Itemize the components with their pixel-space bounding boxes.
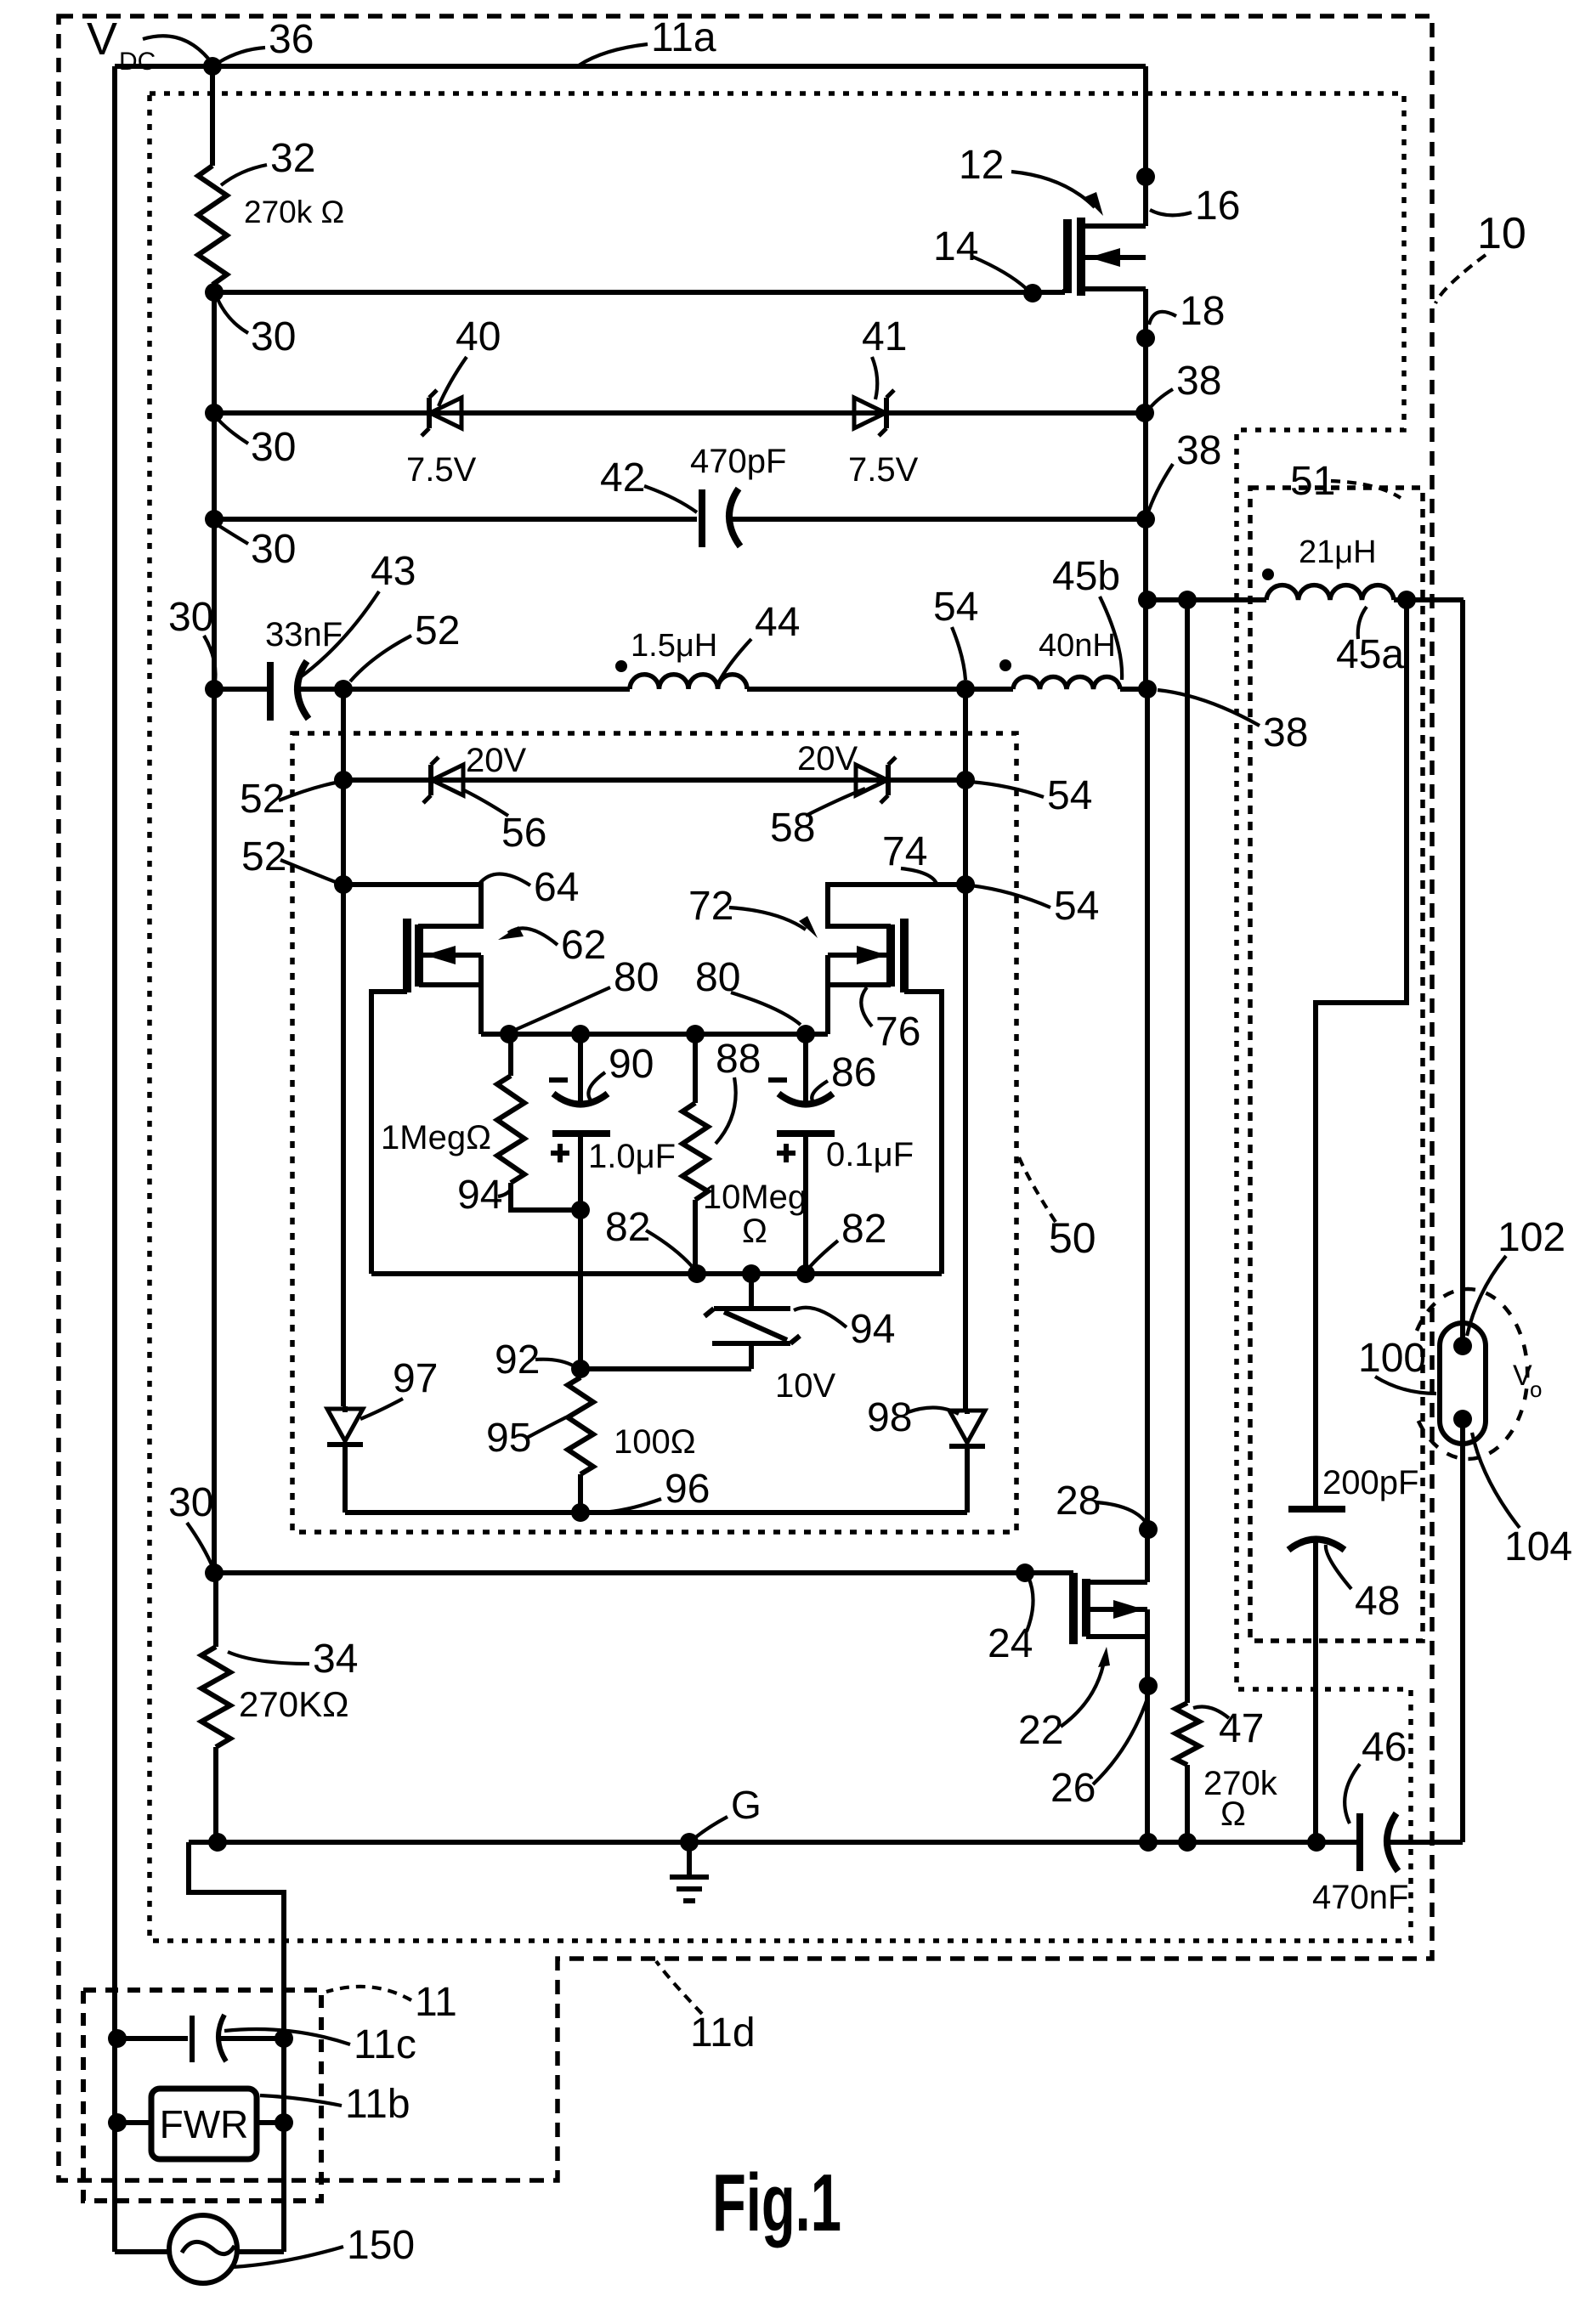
capacitor 42 470pF: [699, 489, 705, 547]
resistor 94 1MegOhm: [508, 1034, 513, 1076]
node 52 a: [334, 771, 353, 789]
svg-text:51: 51: [1290, 459, 1335, 504]
wire rail1 gate of Q12: [214, 289, 1065, 293]
svg-text:52: 52: [415, 608, 460, 653]
zener diode 40 7.5V: [430, 398, 461, 428]
node mid 94/90: [571, 1201, 590, 1219]
svg-text:7.5V: 7.5V: [406, 451, 477, 489]
wire Q62 gate lead: [371, 992, 407, 1274]
svg-text:Ω: Ω: [1220, 1795, 1246, 1833]
wire half-bridge mid vertical: [1145, 689, 1150, 1582]
node 92: [571, 1360, 590, 1378]
svg-text:14: 14: [933, 224, 978, 269]
wire top rail 11a: [115, 64, 1146, 69]
lamp terminal 102: [1453, 1337, 1472, 1355]
wire rail 52-54 zener row: [343, 777, 965, 783]
svg-text:54: 54: [933, 585, 978, 630]
svg-text:47: 47: [1219, 1706, 1264, 1751]
svg-text:11: 11: [415, 1980, 457, 2025]
node rail21 a: [1138, 591, 1157, 609]
svg-text:10V: 10V: [775, 1367, 835, 1405]
node 24 gate: [1016, 1563, 1034, 1582]
node 30 b: [205, 404, 224, 422]
wire ground rail G: [189, 1840, 1360, 1845]
lamp dashed circle V0: [1417, 1289, 1527, 1459]
svg-text:1.0μF: 1.0μF: [588, 1138, 676, 1175]
svg-text:33nF: 33nF: [265, 616, 343, 653]
svg-text:97: 97: [393, 1356, 438, 1401]
svg-text:72: 72: [688, 884, 733, 929]
node 11c left: [108, 2029, 127, 2048]
lamp terminal 104: [1453, 1410, 1472, 1428]
node 38 rail3: [1136, 510, 1155, 529]
svg-text:98: 98: [867, 1395, 912, 1440]
node 54 b: [956, 875, 975, 894]
svg-text:FWR: FWR: [160, 2102, 249, 2146]
svg-text:270KΩ: 270KΩ: [239, 1684, 349, 1724]
node 28: [1139, 1520, 1158, 1539]
minus sign 86: [768, 1077, 787, 1083]
svg-text:40nH: 40nH: [1039, 628, 1116, 664]
svg-text:11a: 11a: [651, 15, 716, 60]
node 82 b: [742, 1264, 761, 1283]
ground symbol: [687, 1842, 692, 1877]
svg-text:56: 56: [501, 811, 546, 856]
node 52 b: [334, 875, 353, 894]
transistor Q12 p-channel MOSFET: [1143, 66, 1148, 226]
node 11c right: [275, 2029, 293, 2048]
svg-text:21μH: 21μH: [1299, 534, 1377, 570]
wire resistor47 feed: [1185, 600, 1190, 1703]
node 54 rail4: [956, 680, 975, 698]
wire Q72 gate lead: [904, 992, 942, 1274]
svg-text:11b: 11b: [345, 2082, 410, 2127]
FWR full wave rectifier 11b: [151, 2089, 257, 2159]
capacitor 11c: [115, 2036, 188, 2041]
lamp 100 envelope: [1440, 1323, 1486, 1444]
node R47 ground: [1178, 1833, 1197, 1852]
svg-text:30: 30: [251, 425, 296, 470]
wire rail 82: [371, 1271, 942, 1276]
svg-text:30: 30: [168, 595, 213, 640]
minus sign 90: [549, 1077, 568, 1083]
node 18: [1136, 329, 1155, 348]
capacitor 90 1.0uF: [578, 1034, 583, 1104]
svg-text:88: 88: [716, 1037, 761, 1082]
transistor Q22 MOSFET: [1069, 1573, 1078, 1644]
inner dashed boundary box 11a region: [150, 93, 1411, 1941]
node rail21 b: [1178, 591, 1197, 609]
node 80 c: [686, 1025, 705, 1043]
svg-text:48: 48: [1355, 1579, 1400, 1624]
wire right column 54: [963, 689, 968, 1412]
svg-text:42: 42: [600, 455, 645, 500]
svg-text:44: 44: [755, 600, 800, 645]
node 38 rail4: [1138, 680, 1157, 698]
svg-text:10Meg: 10Meg: [703, 1179, 807, 1216]
wire rail2 zener row: [214, 410, 1146, 416]
node 30 d: [205, 680, 224, 698]
node 80 a: [500, 1025, 518, 1043]
wire gate rail Q22: [214, 1570, 1073, 1575]
node 26: [1139, 1677, 1158, 1695]
svg-text:20V: 20V: [797, 740, 858, 777]
svg-text:26: 26: [1050, 1766, 1096, 1811]
wire bottom rail 96: [345, 1510, 967, 1515]
capacitor 46 470nF: [1356, 1813, 1363, 1871]
node 34 bottom: [208, 1833, 227, 1852]
svg-text:V: V: [87, 14, 117, 65]
transistor Q72 MOSFET: [828, 885, 965, 926]
node 14 gate: [1023, 284, 1042, 303]
zener diode 94 10V: [749, 1274, 754, 1309]
svg-text:94: 94: [850, 1307, 895, 1352]
node 54 a: [956, 771, 975, 789]
node 82 c: [796, 1264, 815, 1283]
plus sign 90: [551, 1144, 569, 1162]
wire rail 80: [481, 1032, 828, 1037]
dashed box 51 output circuit: [1250, 488, 1423, 1641]
svg-text:58: 58: [770, 806, 815, 851]
svg-text:45a: 45a: [1336, 632, 1404, 677]
svg-text:38: 38: [1176, 428, 1221, 473]
wire left column 52: [341, 689, 346, 1406]
svg-text:34: 34: [313, 1637, 358, 1682]
svg-text:30: 30: [251, 314, 296, 359]
svg-text:Ω: Ω: [742, 1213, 767, 1250]
node G: [680, 1833, 699, 1852]
transistor Q62 MOSFET: [343, 885, 481, 926]
wire lamp internal leads: [1460, 1323, 1465, 1444]
node 96: [571, 1503, 590, 1522]
node 52 rail4: [334, 680, 353, 698]
svg-text:52: 52: [240, 777, 285, 822]
svg-text:20V: 20V: [466, 742, 526, 779]
capacitor 48 200pF: [1288, 1506, 1345, 1513]
svg-text:7.5V: 7.5V: [848, 451, 919, 489]
wire rail4: [214, 687, 1146, 692]
svg-text:0.1μF: 0.1μF: [826, 1136, 914, 1173]
node rail21 c: [1397, 591, 1416, 609]
svg-text:11c: 11c: [354, 2022, 416, 2067]
diode 97: [343, 1406, 348, 1412]
svg-text:150: 150: [347, 2223, 415, 2268]
resistor 47 270kOhm: [1175, 1703, 1199, 1765]
wire 21uH rail: [1147, 597, 1464, 602]
svg-text:200pF: 200pF: [1322, 1464, 1418, 1501]
node 30 c: [205, 510, 224, 529]
svg-text:22: 22: [1018, 1708, 1063, 1753]
svg-text:38: 38: [1176, 359, 1221, 404]
dashed box 11 input rectifier: [83, 1990, 321, 2201]
zener diode 41 7.5V: [854, 398, 886, 428]
svg-text:52: 52: [241, 834, 286, 879]
svg-text:DC: DC: [119, 48, 156, 76]
svg-text:32: 32: [270, 136, 315, 181]
resistor 34 270KOhm: [201, 1647, 230, 1747]
node 80 b: [571, 1025, 590, 1043]
resistor 88 10MegOhm: [693, 1034, 698, 1103]
svg-text:54: 54: [1047, 773, 1092, 818]
resistor 32 270kOhm: [210, 66, 215, 166]
svg-text:470pF: 470pF: [690, 443, 786, 480]
svg-text:18: 18: [1180, 289, 1225, 334]
plus sign 86: [777, 1144, 795, 1162]
svg-text:36: 36: [269, 17, 314, 62]
node 82 a: [688, 1264, 706, 1283]
svg-text:86: 86: [831, 1050, 876, 1095]
svg-text:54: 54: [1054, 884, 1099, 929]
svg-text:96: 96: [665, 1467, 710, 1512]
resistor 95 100Ohm: [578, 1369, 583, 1377]
node 80 d: [796, 1025, 815, 1043]
svg-text:64: 64: [534, 865, 579, 910]
svg-text:90: 90: [609, 1042, 654, 1087]
wire rail3 cap42 row: [214, 517, 1146, 522]
wire Q22 source down: [1145, 1609, 1150, 1842]
svg-text:470nF: 470nF: [1312, 1879, 1408, 1916]
svg-text:80: 80: [614, 955, 659, 1000]
svg-text:76: 76: [875, 1009, 920, 1055]
AC source 150: [169, 2215, 237, 2283]
diode 98: [965, 1412, 970, 1414]
svg-text:10: 10: [1477, 209, 1526, 258]
svg-text:104: 104: [1504, 1524, 1572, 1569]
zener diode 56 20V: [432, 765, 463, 795]
wire lamp top feed: [1460, 600, 1465, 1323]
inductor 44 1.5uH: [630, 675, 747, 689]
dashed box 50 control circuit: [292, 733, 1016, 1532]
svg-text:94: 94: [457, 1173, 502, 1218]
svg-text:62: 62: [561, 923, 606, 968]
svg-text:82: 82: [605, 1205, 650, 1250]
svg-text:95: 95: [486, 1416, 531, 1461]
svg-text:38: 38: [1263, 710, 1308, 755]
capacitor 86 0.1uF: [803, 1034, 808, 1104]
svg-text:1MegΩ: 1MegΩ: [381, 1119, 491, 1156]
svg-text:11d: 11d: [690, 2010, 756, 2055]
inductor 45a 21uH: [1266, 585, 1394, 600]
svg-text:G: G: [731, 1783, 762, 1827]
node FWR left: [108, 2113, 127, 2132]
svg-text:92: 92: [495, 1337, 540, 1383]
svg-text:100: 100: [1358, 1336, 1426, 1381]
svg-text:100Ω: 100Ω: [614, 1423, 696, 1461]
svg-text:41: 41: [862, 314, 907, 359]
capacitor 43 33nF: [267, 662, 274, 721]
svg-text:30: 30: [251, 527, 296, 572]
svg-text:40: 40: [456, 314, 501, 359]
wire cap48 feed step: [1316, 600, 1407, 1509]
wire Q12 source down: [1143, 289, 1148, 691]
wire left rail column 30: [212, 292, 217, 1573]
svg-text:Fig.1: Fig.1: [712, 2157, 841, 2248]
svg-text:12: 12: [959, 143, 1004, 188]
wire left outer vertical: [112, 66, 117, 2252]
zener diode 58 20V: [856, 765, 887, 795]
svg-text:o: o: [1530, 1377, 1542, 1402]
node Q22 ground: [1139, 1833, 1158, 1852]
svg-text:28: 28: [1056, 1479, 1101, 1524]
svg-text:43: 43: [371, 549, 416, 594]
node 36: [203, 57, 222, 76]
svg-text:30: 30: [168, 1480, 213, 1525]
wire 92 to zener: [580, 1366, 751, 1371]
svg-text:102: 102: [1498, 1215, 1566, 1260]
svg-text:270k Ω: 270k Ω: [244, 195, 344, 229]
node 30 e: [205, 1563, 224, 1582]
svg-text:45b: 45b: [1052, 554, 1120, 599]
svg-text:46: 46: [1362, 1725, 1407, 1770]
svg-text:1.5μH: 1.5μH: [631, 628, 717, 664]
inductor 45b 40nH: [1013, 676, 1120, 689]
node C48 ground: [1307, 1833, 1326, 1852]
node 38 rail2: [1135, 404, 1154, 422]
node FWR right: [275, 2113, 293, 2132]
node 30 a: [205, 283, 224, 302]
svg-text:82: 82: [841, 1207, 886, 1252]
svg-text:16: 16: [1195, 184, 1240, 229]
